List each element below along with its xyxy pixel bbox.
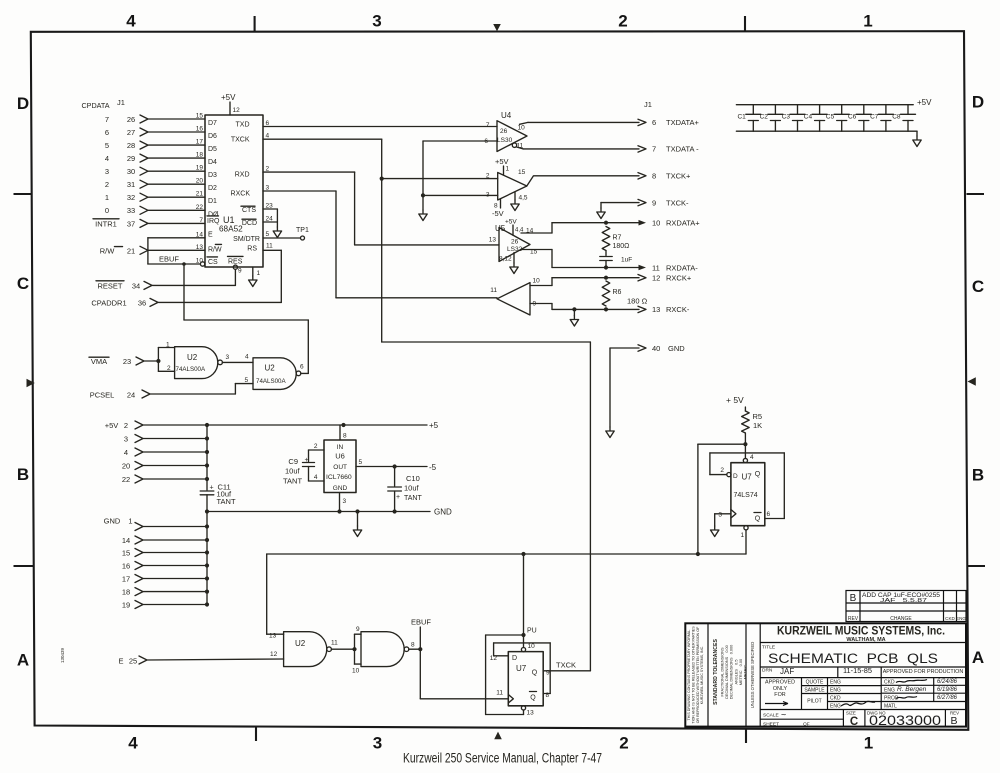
svg-text:17: 17 [122, 575, 130, 584]
svg-text:CS: CS [208, 259, 218, 266]
svg-text:WALTHAM, MA: WALTHAM, MA [846, 637, 885, 643]
svg-text:U4: U4 [501, 111, 512, 120]
svg-text:PU: PU [527, 628, 537, 635]
svg-text:LS30: LS30 [497, 137, 513, 144]
svg-text:5: 5 [359, 459, 363, 466]
svg-text:13: 13 [489, 237, 497, 244]
svg-text:74ALS00A: 74ALS00A [256, 378, 286, 385]
svg-text:C: C [972, 277, 984, 296]
svg-text:D7: D7 [208, 120, 217, 127]
svg-text:RES: RES [228, 258, 243, 265]
svg-text:+5V: +5V [105, 421, 119, 430]
svg-text:5: 5 [245, 377, 249, 384]
svg-text:11: 11 [266, 242, 273, 249]
svg-text:68A52: 68A52 [219, 224, 243, 233]
svg-text:RXCK: RXCK [231, 190, 251, 197]
svg-text:A: A [972, 648, 984, 667]
svg-text:7: 7 [199, 217, 203, 224]
svg-text:METRIC: METRIC [744, 664, 748, 679]
svg-text:D3: D3 [208, 172, 217, 179]
svg-text:TANT: TANT [283, 477, 302, 486]
svg-text:IN: IN [337, 444, 344, 451]
svg-text:C: C [850, 716, 858, 728]
svg-text:4: 4 [128, 734, 138, 753]
svg-text:E: E [118, 657, 123, 666]
svg-text:8: 8 [411, 642, 415, 649]
svg-text:17: 17 [196, 139, 204, 146]
svg-text:ENG: ENG [830, 680, 841, 686]
svg-text:6/27/86: 6/27/86 [937, 695, 958, 701]
svg-text:+5V: +5V [505, 219, 517, 226]
svg-text:STANDARD TOLERANCES: STANDARD TOLERANCES [713, 639, 719, 705]
svg-text:33: 33 [127, 206, 135, 215]
svg-text:1: 1 [166, 342, 170, 349]
svg-text:GND: GND [104, 517, 121, 526]
svg-text:2: 2 [618, 12, 627, 31]
svg-text:D: D [512, 655, 517, 662]
svg-text:TION AND IS NOT TO BE RELEASED: TION AND IS NOT TO BE RELEASED TO OTHER … [691, 626, 695, 724]
svg-text:3: 3 [226, 354, 230, 361]
svg-text:C8: C8 [892, 114, 901, 121]
svg-text:TXD: TXD [236, 122, 250, 129]
svg-text:C9: C9 [288, 457, 298, 466]
svg-text:74ALS00A: 74ALS00A [176, 366, 206, 373]
svg-text:SCHEMATIC PCB QLS: SCHEMATIC PCB QLS [768, 651, 938, 666]
svg-text:R7: R7 [613, 235, 622, 242]
svg-text:CKD: CKD [945, 616, 955, 621]
svg-text:DECIMAL DIMENSIONS 0.000: DECIMAL DIMENSIONS 0.000 [730, 645, 734, 700]
svg-text:INTR1: INTR1 [95, 220, 117, 229]
svg-text:10: 10 [196, 257, 204, 264]
svg-text:TXDATA -: TXDATA - [666, 145, 699, 154]
svg-text:LS32: LS32 [507, 246, 523, 253]
svg-text:1: 1 [506, 166, 510, 173]
svg-text:R/W: R/W [100, 246, 116, 255]
svg-text:20: 20 [122, 462, 130, 471]
svg-text:36: 36 [138, 299, 146, 308]
svg-text:ANGLES 0.5: ANGLES 0.5 [734, 660, 738, 685]
svg-text:5: 5 [266, 231, 270, 238]
svg-text:18: 18 [196, 152, 204, 159]
svg-text:6: 6 [105, 128, 109, 137]
svg-text:11-15-85: 11-15-85 [843, 666, 872, 675]
svg-text:CKD: CKD [884, 680, 895, 686]
svg-text:ENG: ENG [830, 688, 841, 694]
svg-text:37: 37 [127, 220, 135, 229]
svg-text:D4: D4 [208, 159, 217, 166]
svg-text:6/19/86: 6/19/86 [937, 687, 958, 693]
svg-text:31: 31 [127, 180, 135, 189]
svg-text:1K: 1K [753, 421, 762, 430]
svg-text:D2: D2 [208, 185, 217, 192]
svg-text:U2: U2 [265, 363, 276, 372]
svg-text:4: 4 [105, 154, 109, 163]
svg-text:B: B [17, 465, 29, 484]
svg-text:PCSEL: PCSEL [90, 391, 115, 400]
svg-text:-5V: -5V [492, 209, 504, 218]
svg-text:VMA: VMA [91, 357, 107, 366]
svg-text:10: 10 [652, 219, 660, 228]
svg-text:SAMPLE: SAMPLE [804, 688, 825, 694]
svg-text:Q: Q [755, 516, 761, 523]
svg-text:THIS DRAWING CONTAINS PROPRIET: THIS DRAWING CONTAINS PROPRIETARY INFORM… [687, 629, 691, 721]
svg-text:GND: GND [668, 344, 685, 353]
svg-text:APPROVED FOR PRODUCTION: APPROVED FOR PRODUCTION [883, 669, 964, 675]
svg-text:6/24/86: 6/24/86 [937, 679, 958, 685]
svg-text:+5V: +5V [221, 93, 236, 102]
svg-text:Q: Q [532, 670, 538, 677]
svg-text:+: + [305, 457, 309, 464]
svg-text:B: B [850, 593, 857, 604]
svg-text:CPDATA: CPDATA [81, 101, 109, 110]
svg-text:10uf: 10uf [285, 467, 301, 476]
svg-text:26: 26 [500, 128, 508, 135]
svg-text:JAF 5.5.87: JAF 5.5.87 [880, 598, 927, 604]
svg-text:SM/DTR: SM/DTR [233, 236, 260, 243]
svg-text:SIZE: SIZE [846, 711, 856, 716]
svg-text:1uF: 1uF [621, 257, 632, 264]
svg-text:R. Bergen: R. Bergen [897, 686, 927, 693]
svg-text:CKD: CKD [830, 696, 841, 702]
svg-text:3: 3 [373, 734, 382, 753]
svg-text:19: 19 [196, 165, 204, 172]
svg-text:130439: 130439 [60, 647, 65, 663]
svg-text:U1: U1 [223, 215, 235, 225]
svg-text:6: 6 [300, 363, 304, 370]
svg-text:5: 5 [105, 141, 109, 150]
svg-text:+5V: +5V [917, 98, 932, 107]
svg-text:~: ~ [781, 710, 786, 720]
svg-text:RS: RS [247, 246, 257, 253]
svg-text:R/W: R/W [208, 247, 222, 254]
svg-text:22: 22 [196, 204, 204, 211]
svg-text:RXCK+: RXCK+ [666, 274, 692, 283]
svg-text:R5: R5 [753, 412, 763, 421]
svg-text:1: 1 [864, 734, 873, 753]
svg-text:JAF: JAF [780, 667, 794, 676]
svg-text:RXDATA-: RXDATA- [666, 263, 698, 272]
svg-text:1: 1 [128, 517, 132, 526]
svg-text:4: 4 [126, 12, 136, 31]
svg-text:TXCK-: TXCK- [666, 198, 689, 207]
svg-text:C: C [17, 274, 29, 293]
svg-text:C10: C10 [406, 474, 420, 483]
svg-text:TXDATA+: TXDATA+ [666, 118, 699, 127]
svg-text:C4: C4 [804, 114, 813, 121]
svg-text:10: 10 [352, 668, 360, 675]
svg-text:9: 9 [652, 198, 656, 207]
svg-text:6: 6 [767, 511, 771, 518]
svg-text:TXCK: TXCK [556, 661, 576, 670]
svg-text:12: 12 [652, 274, 660, 283]
svg-text:C3: C3 [782, 114, 791, 121]
svg-text:SHEET: SHEET [763, 721, 779, 727]
svg-text:+5: +5 [429, 421, 439, 430]
svg-text:1: 1 [741, 532, 745, 539]
svg-text:26: 26 [511, 239, 519, 246]
svg-text:30: 30 [127, 167, 135, 176]
svg-text:18: 18 [122, 588, 130, 597]
svg-text:16: 16 [196, 126, 204, 133]
svg-text:3: 3 [372, 12, 381, 31]
svg-text:TXCK+: TXCK+ [666, 172, 691, 181]
svg-text:11: 11 [331, 640, 338, 647]
svg-text:CPADDR1: CPADDR1 [91, 299, 126, 308]
svg-text:29: 29 [127, 154, 135, 163]
svg-text:32: 32 [127, 193, 135, 202]
svg-text:3: 3 [105, 167, 109, 176]
svg-text:74LS74: 74LS74 [734, 492, 758, 499]
svg-text:15: 15 [196, 113, 204, 120]
svg-text:7: 7 [652, 145, 656, 154]
svg-text:180Ω: 180Ω [613, 243, 630, 250]
svg-text:25: 25 [129, 657, 137, 666]
svg-text:U7: U7 [742, 473, 753, 482]
svg-text:9: 9 [238, 268, 242, 275]
svg-text:1: 1 [105, 193, 109, 202]
svg-text:28: 28 [127, 141, 135, 150]
svg-text:U2: U2 [187, 353, 198, 362]
svg-text:ENG: ENG [884, 687, 895, 693]
svg-text:PILOT: PILOT [807, 699, 821, 705]
svg-text:C1: C1 [737, 114, 746, 121]
svg-text:-5: -5 [429, 463, 437, 472]
svg-text:15: 15 [518, 169, 526, 176]
svg-text:U7: U7 [516, 664, 527, 673]
svg-text:6: 6 [652, 118, 656, 127]
svg-text:DECIMAL DIMENSIONS 0.00: DECIMAL DIMENSIONS 0.00 [725, 645, 729, 698]
svg-text:24: 24 [127, 391, 135, 400]
svg-text:D: D [733, 473, 738, 480]
svg-text:8: 8 [343, 433, 347, 440]
svg-text:A: A [17, 651, 29, 670]
svg-text:ONLY: ONLY [773, 686, 788, 692]
svg-text:2: 2 [720, 467, 724, 474]
svg-text:U6: U6 [335, 452, 345, 461]
svg-text:7: 7 [486, 122, 490, 129]
svg-text:DRN: DRN [762, 668, 773, 674]
svg-text:11: 11 [496, 690, 503, 697]
svg-text:10uf: 10uf [404, 484, 420, 493]
svg-text:OUT: OUT [333, 464, 347, 471]
svg-text:4: 4 [266, 133, 270, 140]
svg-text:ENG: ENG [830, 704, 841, 710]
svg-text:23: 23 [123, 357, 131, 366]
svg-text:34: 34 [132, 282, 140, 291]
svg-text:J1: J1 [644, 100, 652, 109]
svg-text:27: 27 [127, 128, 135, 137]
svg-text:11: 11 [490, 287, 497, 294]
svg-text:Q: Q [755, 471, 761, 478]
svg-text:EBUF: EBUF [411, 618, 431, 627]
svg-text:UNLESS OTHERWISE SPECIFIED: UNLESS OTHERWISE SPECIFIED [750, 642, 755, 708]
svg-text:+ 5V: + 5V [726, 395, 744, 405]
svg-text:D: D [972, 93, 984, 112]
svg-text:GND: GND [434, 508, 452, 517]
svg-text:B: B [972, 466, 984, 485]
svg-text:20: 20 [196, 178, 204, 185]
svg-text:10: 10 [533, 278, 541, 285]
svg-text:14: 14 [122, 536, 130, 545]
svg-text:02033000: 02033000 [869, 712, 941, 728]
svg-text:C2: C2 [760, 114, 769, 121]
svg-text:4: 4 [314, 474, 318, 481]
svg-text:2: 2 [619, 734, 628, 753]
svg-text:+: + [396, 494, 400, 501]
svg-text:RXCK-: RXCK- [666, 305, 690, 314]
svg-text:TXCK: TXCK [231, 137, 250, 144]
svg-text:10: 10 [518, 125, 526, 132]
svg-text:RXDATA+: RXDATA+ [666, 219, 700, 228]
svg-text:2: 2 [124, 421, 128, 430]
svg-text:40: 40 [652, 344, 660, 353]
svg-text:B: B [950, 715, 957, 727]
svg-text:D5: D5 [208, 146, 217, 153]
svg-text:7: 7 [105, 115, 109, 124]
svg-text:1: 1 [257, 270, 261, 277]
svg-text:3: 3 [124, 435, 128, 444]
svg-text:C6: C6 [848, 114, 857, 121]
svg-text:19: 19 [122, 601, 130, 610]
svg-text:21: 21 [127, 246, 135, 255]
svg-text:METRIC 0.00: METRIC 0.00 [739, 659, 743, 685]
svg-text:4: 4 [750, 454, 754, 461]
svg-text:C5: C5 [826, 114, 835, 121]
svg-text:FRACTIONAL DIMENSIONS: FRACTIONAL DIMENSIONS [721, 647, 725, 696]
svg-text:12: 12 [233, 107, 241, 114]
svg-text:Kurzweil 250 Service Manual, C: Kurzweil 250 Service Manual, Chapter 7-4… [403, 751, 602, 766]
svg-text:SCALE: SCALE [763, 713, 779, 719]
svg-text:TP1: TP1 [296, 227, 309, 234]
svg-text:22: 22 [122, 475, 130, 484]
svg-text:OF: OF [803, 721, 810, 727]
svg-text:11: 11 [652, 263, 660, 272]
svg-text:D1: D1 [208, 198, 217, 205]
svg-text:EBUF: EBUF [159, 255, 179, 264]
svg-text:CHANGE: CHANGE [890, 616, 912, 622]
svg-text:2: 2 [105, 180, 109, 189]
svg-text:CTS: CTS [242, 207, 256, 214]
svg-text:MATL: MATL [884, 703, 897, 709]
svg-text:ENG: ENG [956, 616, 966, 621]
svg-text:21: 21 [196, 191, 204, 198]
svg-text:13: 13 [527, 710, 535, 717]
svg-text:2: 2 [314, 443, 318, 450]
svg-text:14: 14 [196, 231, 204, 238]
svg-text:IRQ: IRQ [207, 218, 220, 225]
svg-text:8: 8 [652, 172, 656, 181]
svg-text:8: 8 [494, 203, 498, 210]
svg-text:2: 2 [167, 365, 171, 372]
svg-text:26: 26 [127, 115, 135, 124]
svg-text:KURZWEIL MUSIC SYSTEMS, Inc.: KURZWEIL MUSIC SYSTEMS, Inc. [777, 626, 945, 638]
svg-text:4,5: 4,5 [519, 195, 528, 202]
svg-text:RESET: RESET [97, 282, 122, 291]
svg-text:J1: J1 [117, 98, 125, 107]
svg-text:12: 12 [270, 651, 278, 658]
svg-text:3: 3 [718, 512, 722, 519]
svg-text:10: 10 [528, 643, 536, 650]
svg-text:ICL7660: ICL7660 [326, 474, 352, 481]
svg-text:Q: Q [530, 695, 536, 702]
svg-text:D: D [17, 94, 29, 113]
svg-text:REV: REV [848, 616, 859, 622]
svg-text:E: E [208, 232, 213, 239]
svg-text:15: 15 [122, 549, 130, 558]
svg-text:13: 13 [196, 244, 204, 251]
svg-text:TANT: TANT [404, 495, 422, 502]
svg-text:APPROVED: APPROVED [765, 680, 795, 686]
svg-text:R6: R6 [613, 289, 622, 296]
svg-text:4: 4 [245, 354, 249, 361]
svg-text:KURZWEIL MUSIC SYSTEMS, INC.: KURZWEIL MUSIC SYSTEMS, INC. [700, 646, 704, 704]
svg-text:4: 4 [124, 448, 128, 457]
svg-text:C7: C7 [870, 114, 879, 121]
svg-text:3: 3 [343, 498, 347, 505]
svg-text:DCD: DCD [242, 220, 257, 227]
svg-text:OR REPRODUCED WITHOUT WRITTEN: OR REPRODUCED WITHOUT WRITTEN PERMISSION… [696, 626, 700, 723]
svg-text:TITLE: TITLE [762, 645, 775, 651]
svg-text:U2: U2 [295, 639, 306, 648]
svg-text:D6: D6 [208, 133, 217, 140]
svg-text:TANT: TANT [217, 497, 236, 506]
svg-text:16: 16 [122, 562, 130, 571]
svg-text:FOR: FOR [774, 692, 785, 698]
svg-text:9: 9 [356, 626, 360, 633]
svg-text:180 Ω: 180 Ω [627, 297, 648, 306]
svg-text:GND: GND [333, 485, 348, 492]
svg-text:0: 0 [105, 206, 109, 215]
svg-text:RXD: RXD [235, 172, 250, 179]
svg-text:8,12: 8,12 [499, 256, 512, 263]
svg-text:13: 13 [652, 305, 660, 314]
svg-text:QUOTE: QUOTE [806, 680, 824, 686]
svg-text:1: 1 [863, 12, 872, 31]
